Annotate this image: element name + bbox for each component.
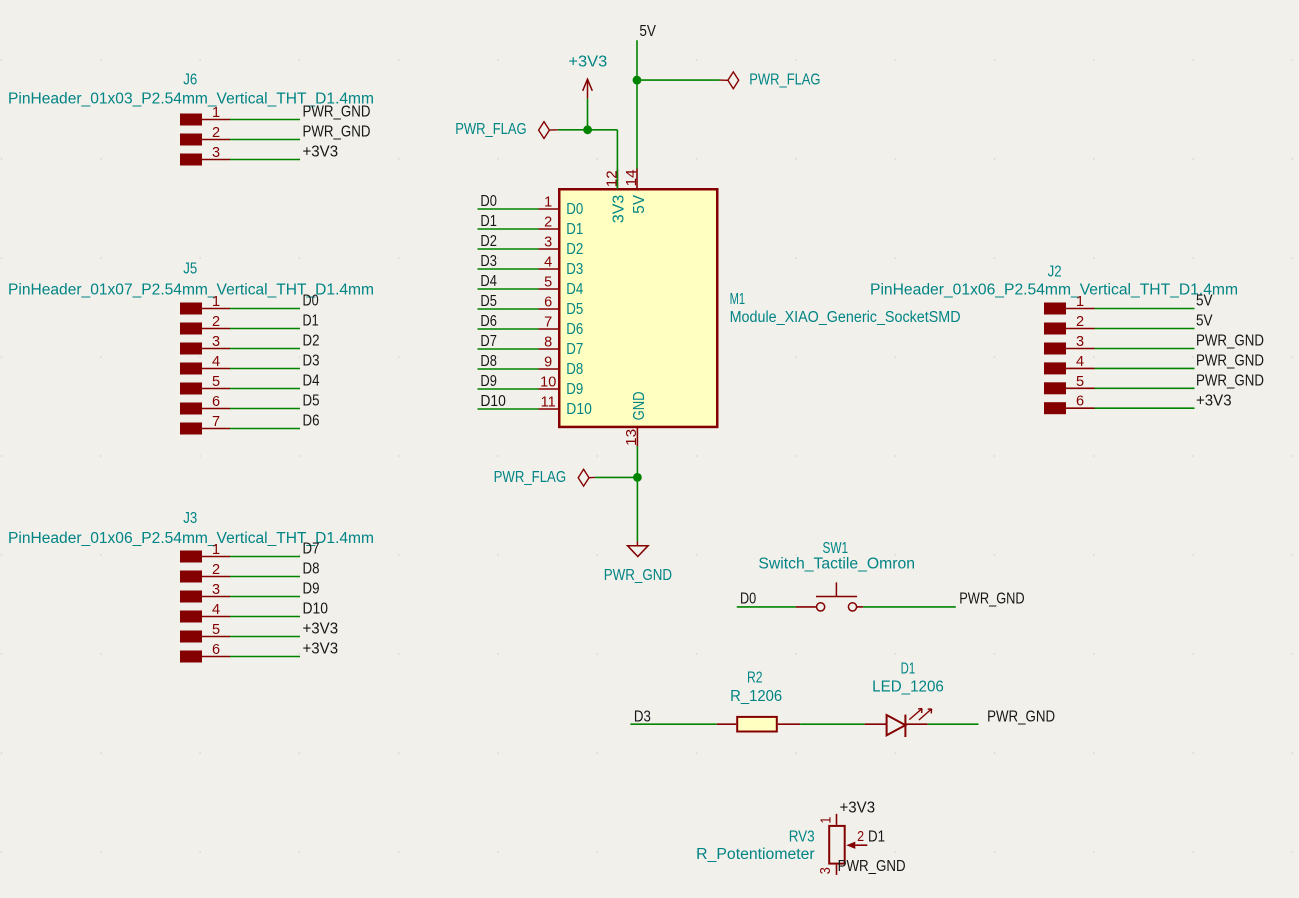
node D5 net label [480, 293, 497, 310]
svg-text:D8: D8 [480, 353, 497, 370]
svg-text:3V3: 3V3 [611, 195, 628, 223]
module M1 pin number 6 [544, 295, 552, 311]
node D1 net label (RV3 wiper) [868, 829, 885, 846]
power symbol PWR_GND [628, 541, 649, 556]
node PWR_GND net label [1196, 353, 1264, 370]
svg-text:D6: D6 [566, 321, 583, 338]
connector J2 pin number 4 [1076, 354, 1084, 370]
svg-text:D4: D4 [566, 281, 583, 298]
node D2 net label [480, 233, 497, 250]
connector J3 pin number 5 [212, 622, 220, 638]
svg-text:6: 6 [212, 642, 220, 658]
wire D4 to M1 pin 5 [478, 288, 539, 290]
connector J3 pin 5 pad [180, 631, 202, 643]
module M1 pin 6 [539, 308, 560, 310]
connector J2 pin 1 pad [1044, 303, 1066, 315]
svg-text:R2: R2 [747, 669, 763, 686]
power flag PWR_FLAG (bottom) symbol [578, 469, 595, 486]
connector J3 pin number 6 [212, 642, 220, 658]
svg-text:PWR_GND: PWR_GND [838, 858, 906, 875]
svg-text:D1: D1 [901, 660, 916, 677]
connector J2 pin number 2 [1076, 314, 1084, 330]
connector J3 pin 2 [202, 576, 230, 578]
wire D0 to M1 pin 1 [478, 208, 539, 210]
module M1 pin 3 [539, 248, 560, 250]
svg-text:1: 1 [212, 294, 220, 310]
module M1 pin name D6 [566, 321, 583, 338]
svg-text:D0: D0 [480, 193, 497, 210]
svg-text:7: 7 [212, 414, 220, 430]
LED D1 pin 2 (anode side) [865, 723, 887, 725]
svg-text:6: 6 [1076, 394, 1084, 410]
power flag PWR_FLAG (left) value label [455, 121, 526, 138]
connector J2 pin 6 pad [1044, 402, 1066, 414]
module M1 pin 7 [539, 328, 560, 330]
svg-text:1: 1 [544, 195, 552, 211]
svg-text:PinHeader_01x07_P2.54mm_Vertic: PinHeader_01x07_P2.54mm_Vertical_THT_D1.… [8, 281, 374, 298]
connector J5 reference label [183, 261, 197, 278]
wire SW1 pin 2 to PWR_GND [863, 606, 956, 608]
connector J3 pin 1 pad [180, 551, 202, 563]
svg-text:D2: D2 [566, 241, 583, 258]
module M1 pin name D3 [566, 261, 583, 278]
svg-text:D6: D6 [303, 413, 320, 430]
connector J5 pin 7 [202, 428, 230, 430]
connector J3 pin 3 pad [180, 591, 202, 603]
svg-text:D7: D7 [566, 341, 583, 358]
svg-text:D7: D7 [303, 541, 320, 558]
power flag PWR_FLAG (left) symbol [539, 122, 558, 139]
svg-text:D2: D2 [480, 233, 497, 250]
svg-text:D8: D8 [303, 561, 320, 578]
node +3V3 net label [303, 641, 339, 658]
module M1 pin name D1 [566, 221, 583, 238]
module M1 pin 8 [539, 348, 560, 350]
svg-text:D7: D7 [480, 333, 497, 350]
svg-text:PWR_GND: PWR_GND [1196, 333, 1264, 350]
svg-text:13: 13 [624, 429, 640, 446]
connector J5 pin 1 [202, 308, 230, 310]
wire J2 pin 4 to PWR_GND [1095, 367, 1195, 369]
connector J2 pin number 1 [1076, 294, 1084, 310]
wire J2 pin 3 to PWR_GND [1095, 348, 1195, 350]
wire D10 to M1 pin 11 [478, 408, 539, 410]
connector J5 pin number 4 [212, 354, 220, 370]
node PWR_GND net label [1196, 333, 1264, 350]
svg-text:2: 2 [1076, 314, 1084, 330]
module M1 pin 1 [539, 208, 560, 210]
svg-text:5V: 5V [1196, 313, 1213, 330]
node D7 net label [480, 333, 497, 350]
switch SW1 actuator bar [816, 582, 857, 596]
connector J2 pin number 5 [1076, 374, 1084, 390]
module M1 pin 2 [539, 228, 560, 230]
svg-text:3: 3 [212, 145, 220, 161]
node D9 net label [303, 581, 320, 598]
module M1 pin 11 [539, 408, 560, 410]
wire D1 to PWR_GND [928, 723, 979, 725]
resistor R2 pin 2 [778, 723, 800, 725]
svg-text:D6: D6 [480, 313, 497, 330]
node D8 net label [303, 561, 320, 578]
connector J5 pin number 3 [212, 334, 220, 350]
svg-text:7: 7 [544, 315, 552, 331]
svg-text:9: 9 [544, 355, 552, 371]
wire J5 pin 2 to D1 [230, 328, 300, 330]
connector J3 pin 5 [202, 636, 230, 638]
svg-text:PWR_GND: PWR_GND [1196, 373, 1264, 390]
svg-text:6: 6 [544, 295, 552, 311]
svg-text:PWR_FLAG: PWR_FLAG [455, 121, 526, 138]
svg-text:PWR_GND: PWR_GND [1196, 353, 1264, 370]
module M1 pin name D10 [566, 401, 592, 418]
svg-text:PWR_GND: PWR_GND [987, 708, 1055, 725]
svg-text:SW1: SW1 [823, 540, 849, 557]
connector J5 pin 5 pad [180, 383, 202, 395]
LED D1 value label LED_1206 [872, 679, 944, 696]
connector J6 pin number 3 [212, 145, 220, 161]
node D9 net label [480, 373, 497, 390]
module M1 pin 9 [539, 368, 560, 370]
svg-text:D9: D9 [480, 373, 497, 390]
module M1 pin number 7 [544, 315, 552, 331]
connector J5 pin number 5 [212, 374, 220, 390]
svg-text:2: 2 [857, 829, 864, 845]
resistor R2 body [737, 717, 777, 732]
wire junction down to PWR_GND symbol [636, 477, 638, 541]
connector J6 pin 3 [202, 159, 230, 161]
module M1 pin name 3V3 [611, 195, 628, 223]
junction at PWR_GND node [633, 473, 642, 482]
node D7 net label [303, 541, 320, 558]
module M1 pin name D2 [566, 241, 583, 258]
svg-text:4: 4 [1076, 354, 1084, 370]
connector J5 footprint value label [8, 281, 374, 298]
module M1 value label Module_XIAO_Generic_SocketSMD [730, 309, 961, 326]
switch SW1 contact circle left [817, 603, 825, 611]
connector J3 pin number 4 [212, 602, 220, 618]
node D1 net label [480, 213, 497, 230]
connector J3 pin number 3 [212, 582, 220, 598]
switch SW1 reference label [823, 540, 849, 557]
connector J6 pin 3 pad [180, 154, 202, 166]
module M1 body [559, 189, 717, 427]
node PWR_GND net label [1196, 373, 1264, 390]
resistor R2 value label R_1206 [730, 688, 782, 705]
svg-text:4: 4 [212, 602, 220, 618]
wire J3 pin 6 to +3V3 [230, 656, 300, 658]
wire D9 to M1 pin 10 [478, 388, 539, 390]
svg-text:5: 5 [212, 622, 220, 638]
LED D1 emission arrow 2 [919, 709, 932, 720]
wire J2 pin 1 to 5V [1095, 308, 1195, 310]
node +3V3 net label [1196, 392, 1232, 409]
potentiometer RV3 pin number 3 [818, 867, 834, 874]
connector J5 pin 5 [202, 388, 230, 390]
svg-text:+3V3: +3V3 [303, 144, 339, 161]
svg-text:D1: D1 [566, 221, 583, 238]
module M1 pin number 2 [544, 215, 552, 231]
svg-text:D10: D10 [480, 393, 506, 410]
module M1 pin name D7 [566, 341, 583, 358]
wire J3 pin 1 to D7 [230, 556, 300, 558]
connector J2 pin 4 [1066, 367, 1095, 369]
wire PWR_FLAG to +3V3 junction [558, 129, 588, 131]
svg-text:1: 1 [1076, 294, 1084, 310]
connector J2 pin 5 pad [1044, 382, 1066, 394]
svg-text:D8: D8 [566, 361, 583, 378]
svg-text:5: 5 [544, 275, 552, 291]
node PWR_GND net label [303, 104, 371, 121]
node D5 net label [303, 393, 320, 410]
node D4 net label [480, 273, 497, 290]
connector J5 pin 4 pad [180, 363, 202, 375]
svg-text:D3: D3 [634, 708, 651, 725]
connector J6 pin 1 [202, 119, 230, 121]
svg-text:D9: D9 [566, 381, 583, 398]
svg-text:+3V3: +3V3 [568, 54, 607, 71]
node PWR_GND net label [303, 124, 371, 141]
wire J5 pin 7 to D6 [230, 428, 300, 430]
module M1 pin number 5 [544, 275, 552, 291]
wire J3 pin 5 to +3V3 [230, 636, 300, 638]
svg-text:J3: J3 [183, 510, 197, 527]
wire J5 pin 3 to D2 [230, 348, 300, 350]
wire J5 pin 5 to D4 [230, 388, 300, 390]
module M1 pin name GND [631, 391, 648, 420]
module M1 pin number 3 [544, 235, 552, 251]
svg-text:D0: D0 [566, 201, 583, 218]
svg-text:+3V3: +3V3 [303, 641, 339, 658]
connector J3 pin 3 [202, 596, 230, 598]
connector J3 pin 4 pad [180, 611, 202, 623]
wire D6 to M1 pin 7 [478, 328, 539, 330]
connector J6 pin number 1 [212, 105, 220, 121]
junction at +3V3 node [583, 125, 592, 134]
svg-text:D3: D3 [303, 353, 320, 370]
connector J6 pin 2 [202, 139, 230, 141]
svg-text:3: 3 [818, 867, 834, 874]
svg-text:6: 6 [212, 394, 220, 410]
connector J2 pin 5 [1066, 387, 1095, 389]
connector J2 pin 1 [1066, 308, 1095, 310]
wire +3V3 junction to M1 pin 12 (corner) [588, 130, 618, 189]
switch SW1 pin 1 [796, 606, 817, 608]
svg-text:5: 5 [212, 374, 220, 390]
node D4 net label [303, 373, 320, 390]
module M1 pin name D4 [566, 281, 583, 298]
connector J5 pin number 6 [212, 394, 220, 410]
svg-text:D0: D0 [303, 293, 319, 310]
wire D7 to M1 pin 8 [478, 348, 539, 350]
node D6 net label [303, 413, 320, 430]
node D10 net label [480, 393, 506, 410]
module M1 pin number 1 [544, 195, 552, 211]
svg-text:D1: D1 [868, 829, 885, 846]
wire J6 pin 2 to PWR_GND [230, 139, 300, 141]
node D0 net label (switch) [740, 591, 756, 608]
wire D5 to M1 pin 6 [478, 308, 539, 310]
node +3V3 net label [303, 621, 339, 638]
module M1 pin number 4 [544, 255, 552, 271]
connector J3 pin number 2 [212, 562, 220, 578]
module M1 pin 4 [539, 268, 560, 270]
connector J2 pin 4 pad [1044, 362, 1066, 374]
connector J5 pin 3 pad [180, 343, 202, 355]
connector J3 pin 2 pad [180, 571, 202, 583]
svg-text:1: 1 [212, 542, 220, 558]
connector J5 pin 2 [202, 328, 230, 330]
node D10 net label [303, 601, 329, 618]
module M1 pin number 14 [624, 169, 640, 186]
switch SW1 value label Switch_Tactile_Omron [758, 556, 915, 573]
node D3 net label [303, 353, 320, 370]
module M1 pin number 8 [544, 335, 552, 351]
module M1 pin name D5 [566, 301, 583, 318]
wire J6 pin 3 to +3V3 [230, 159, 300, 161]
svg-text:4: 4 [212, 354, 220, 370]
node D6 net label [480, 313, 497, 330]
svg-text:8: 8 [544, 335, 552, 351]
wire J5 pin 4 to D3 [230, 368, 300, 370]
svg-text:PWR_GND: PWR_GND [303, 104, 371, 121]
connector J3 pin 1 [202, 556, 230, 558]
wire D3 to M1 pin 4 [478, 268, 539, 270]
svg-text:GND: GND [631, 391, 648, 420]
node +3V3 net label [303, 144, 339, 161]
svg-text:5V: 5V [631, 194, 648, 213]
potentiometer RV3 body [829, 826, 845, 864]
wire D2 to M1 pin 3 [478, 248, 539, 250]
svg-text:Switch_Tactile_Omron: Switch_Tactile_Omron [758, 556, 915, 573]
svg-text:2: 2 [212, 125, 220, 141]
module M1 pin number 13 [624, 429, 640, 446]
svg-text:RV3: RV3 [789, 828, 815, 845]
connector J5 pin number 1 [212, 294, 220, 310]
connector J5 pin 3 [202, 348, 230, 350]
svg-text:5: 5 [1076, 374, 1084, 390]
potentiometer RV3 pin number 2 [857, 829, 864, 845]
svg-text:D5: D5 [566, 301, 583, 318]
wire J2 pin 6 to +3V3 [1095, 407, 1195, 409]
connector J2 pin 6 [1066, 407, 1095, 409]
connector J6 pin number 2 [212, 125, 220, 141]
svg-text:2: 2 [212, 562, 220, 578]
module M1 pin name D9 [566, 381, 583, 398]
svg-text:14: 14 [624, 169, 640, 186]
node PWR_GND net label (RV3 bottom) [838, 858, 906, 875]
module M1 pin number 10 [540, 375, 556, 391]
svg-text:PinHeader_01x06_P2.54mm_Vertic: PinHeader_01x06_P2.54mm_Vertical_THT_D1.… [870, 282, 1238, 299]
connector J2 pin number 3 [1076, 334, 1084, 350]
module M1 reference label M1 [730, 291, 746, 308]
wire R2 to D1 [800, 723, 865, 725]
svg-text:D3: D3 [566, 261, 583, 278]
svg-text:2: 2 [544, 215, 552, 231]
module M1 pin name 5V [631, 194, 648, 213]
svg-text:PWR_FLAG: PWR_FLAG [494, 469, 566, 486]
svg-text:D10: D10 [566, 401, 592, 418]
power flag PWR_FLAG (bottom) value label [494, 469, 566, 486]
svg-text:J5: J5 [183, 261, 197, 278]
connector J5 pin 1 pad [180, 303, 202, 315]
wire J3 pin 2 to D8 [230, 576, 300, 578]
LED D1 cathode bar [904, 715, 906, 737]
connector J5 pin 7 pad [180, 423, 202, 435]
module M1 pin 13 [636, 427, 638, 446]
node D1 net label [303, 313, 319, 330]
wire PWR_FLAG to ground junction [595, 476, 637, 478]
connector J2 pin 3 [1066, 348, 1095, 350]
svg-text:D2: D2 [303, 333, 320, 350]
wire +3V3 symbol to junction [587, 98, 589, 129]
LED D1 pin 1 (cathode side) [905, 723, 927, 725]
potentiometer RV3 pin number 1 [819, 817, 835, 824]
svg-text:R_1206: R_1206 [730, 688, 782, 705]
wire J5 pin 1 to D0 [230, 308, 300, 310]
module M1 pin name D0 [566, 201, 583, 218]
node 5V net label (top) [639, 23, 656, 40]
LED D1 triangle [887, 715, 906, 735]
module M1 pin 14 [636, 169, 638, 190]
connector J3 pin 6 pad [180, 651, 202, 663]
connector J3 pin number 1 [212, 542, 220, 558]
svg-text:3: 3 [1076, 334, 1084, 350]
power flag PWR_FLAG (top right) value label [749, 71, 820, 88]
wire 5V junction to PWR_FLAG (top right) [637, 79, 720, 81]
node PWR_GND net label (LED row) [987, 708, 1055, 725]
wire D0 to SW1 pin 1 [737, 606, 796, 608]
svg-text:1: 1 [212, 105, 220, 121]
svg-text:D9: D9 [303, 581, 320, 598]
svg-text:J6: J6 [183, 72, 197, 89]
connector J3 pin 4 [202, 616, 230, 618]
svg-text:D1: D1 [480, 213, 497, 230]
power symbol PWR_GND value label [604, 567, 672, 584]
svg-text:5V: 5V [1196, 293, 1213, 310]
connector J5 pin 6 [202, 408, 230, 410]
svg-text:PWR_FLAG: PWR_FLAG [749, 71, 820, 88]
resistor R2 reference label [747, 669, 763, 686]
node D8 net label [480, 353, 497, 370]
svg-text:11: 11 [541, 395, 556, 411]
potentiometer RV3 reference label [789, 828, 815, 845]
wire J3 pin 3 to D9 [230, 596, 300, 598]
node D2 net label [303, 333, 320, 350]
wire D3 to R2 [630, 723, 716, 725]
module M1 pin number 9 [544, 355, 552, 371]
potentiometer RV3 wiper arrow pin 2 [846, 842, 867, 849]
svg-text:Module_XIAO_Generic_SocketSMD: Module_XIAO_Generic_SocketSMD [730, 309, 961, 326]
connector J6 pin 1 pad [180, 114, 202, 126]
connector J5 pin 2 pad [180, 323, 202, 335]
module M1 pin 12 [616, 169, 618, 190]
svg-text:LED_1206: LED_1206 [872, 679, 944, 696]
node 5V net label [1196, 313, 1213, 330]
connector J6 footprint value label [8, 90, 374, 107]
power symbol +3V3 (top) [583, 79, 593, 98]
switch SW1 pin 2 [857, 606, 864, 608]
node PWR_GND net label (switch) [959, 591, 1024, 608]
svg-text:PWR_GND: PWR_GND [303, 124, 371, 141]
svg-text:PWR_GND: PWR_GND [604, 567, 672, 584]
LED D1 reference label [901, 660, 916, 677]
wire J3 pin 4 to D10 [230, 616, 300, 618]
wire J6 pin 1 to PWR_GND [230, 119, 300, 121]
svg-text:J2: J2 [1048, 264, 1062, 281]
wire M1 pin 13 to ground junction [636, 446, 638, 477]
resistor R2 pin 1 [717, 723, 736, 725]
